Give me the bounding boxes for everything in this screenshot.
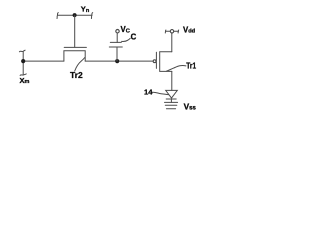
leader line for label C xyxy=(122,38,131,41)
data line Xm vertical segment xyxy=(22,51,24,75)
leader line for label Tr2 xyxy=(75,58,85,72)
Vss electrode bar 2 xyxy=(165,104,177,106)
junction dot: Yn to Tr2 gate xyxy=(73,13,77,17)
transistor Tr2 gate bar xyxy=(64,46,86,48)
wire: Vdd down to Tr1 drain xyxy=(171,33,173,52)
svg-text:Tr2: Tr2 xyxy=(70,70,83,80)
wire: Tr2 drain to Tr1 gate (storage node) xyxy=(85,60,153,62)
svg-text:Tr1: Tr1 xyxy=(186,61,196,70)
svg-text:VC: VC xyxy=(121,25,130,34)
wire: Vc terminal down to capacitor top plate xyxy=(116,33,118,42)
EL element 14 cathode bar xyxy=(166,98,176,100)
junction dot: Xm to wire xyxy=(21,59,25,63)
EL element 14 diode triangle (anode) xyxy=(166,90,178,98)
junction dot: capacitor C to storage node wire xyxy=(115,59,119,63)
data line Xm bottom break tick xyxy=(20,74,26,76)
scan line Yn right end break tick xyxy=(91,13,92,19)
leader line for label 14 xyxy=(152,92,169,94)
wire: capacitor bottom plate down to storage node wire xyxy=(116,47,118,61)
data line Xm top break tick xyxy=(19,50,25,52)
svg-text:Xm: Xm xyxy=(20,76,30,85)
terminal circle Vc xyxy=(116,30,119,33)
terminal circle Vdd xyxy=(170,30,173,33)
scan line Yn left end break tick xyxy=(57,13,58,19)
power terminal Vdd horizontal segment xyxy=(166,30,179,32)
svg-text:Yn: Yn xyxy=(81,5,90,14)
leader line for label Tr1 xyxy=(166,65,186,71)
capacitor C bottom plate xyxy=(109,46,122,48)
transistor Tr2 channel (source-drain hump) xyxy=(64,51,85,61)
svg-text:14: 14 xyxy=(144,87,153,96)
scan line Yn horizontal segment xyxy=(58,14,92,16)
svg-text:Vdd: Vdd xyxy=(183,26,196,35)
svg-text:Vss: Vss xyxy=(184,102,197,112)
wire: Yn down to Tr2 gate xyxy=(74,15,76,47)
svg-text:C: C xyxy=(131,32,137,41)
transistor Tr1 gate connection circle xyxy=(153,60,156,63)
wire: Xm to Tr2 source xyxy=(23,60,64,62)
transistor Tr1 channel (drain-source hump) xyxy=(160,52,172,72)
wire: cathode bar to Vss electrode xyxy=(170,99,172,102)
Vdd right end tick xyxy=(177,30,180,33)
transistor Tr1 gate bar xyxy=(155,52,157,68)
wire: Tr1 source down to EL element anode xyxy=(171,71,173,90)
Vss electrode bar 3 xyxy=(166,108,175,110)
capacitor C top plate xyxy=(110,41,121,43)
Vdd left end tick xyxy=(164,30,167,33)
Vss electrode bar 1 xyxy=(165,101,178,103)
